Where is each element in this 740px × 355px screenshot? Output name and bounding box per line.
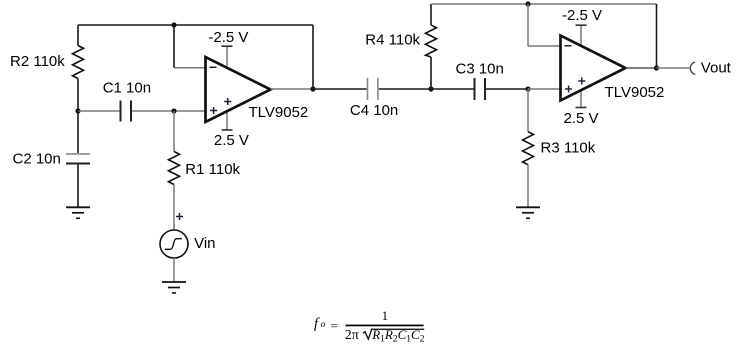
wire U2 output stub bbox=[626, 67, 657, 69]
svg-text:Vout: Vout bbox=[701, 59, 732, 76]
label plus input U2 bbox=[565, 86, 572, 93]
wire inverting input stub U1 bbox=[174, 67, 206, 69]
wire feedback vertical stage1 bbox=[312, 25, 314, 89]
wire R2 bottom lead bbox=[77, 79, 79, 112]
svg-text:TLV9052: TLV9052 bbox=[249, 104, 309, 121]
wire U2 feedback vertical bbox=[656, 4, 658, 68]
svg-text:o: o bbox=[321, 320, 326, 330]
wire Vin to ground bbox=[173, 258, 175, 282]
svg-text:-2.5 V: -2.5 V bbox=[562, 7, 602, 24]
capacitor C4 bbox=[368, 78, 378, 100]
svg-text:R1 110k: R1 110k bbox=[185, 161, 240, 178]
node junction C1 R1 plus-input bbox=[171, 108, 176, 113]
node junction R2 C1 C2 bbox=[75, 108, 80, 113]
ground below R3 bbox=[516, 207, 540, 218]
svg-text:TLV9052: TLV9052 bbox=[605, 84, 665, 101]
wire C2 top lead bbox=[77, 111, 79, 153]
capacitor C2 bbox=[66, 154, 90, 164]
svg-text:C3 10n: C3 10n bbox=[456, 60, 504, 77]
wire positive supply stub U2 bbox=[580, 90, 582, 107]
capacitor C3 bbox=[475, 78, 486, 100]
svg-text:R2 110k: R2 110k bbox=[10, 53, 65, 70]
wire C1 right lead to plus input bbox=[132, 110, 206, 112]
wire negative supply stub U2 bbox=[580, 25, 582, 46]
svg-text:R3 110k: R3 110k bbox=[541, 140, 596, 157]
terminal Vout bbox=[690, 62, 695, 75]
wire negative supply stub U1 bbox=[226, 46, 228, 68]
op-amp U1 TLV9052 bbox=[206, 57, 271, 122]
resistor R4 bbox=[426, 25, 437, 57]
svg-text:C2 10n: C2 10n bbox=[13, 151, 61, 168]
wire R1 to Vin source bbox=[173, 185, 175, 231]
wire top feedback rail stage2 bbox=[431, 3, 657, 5]
node output U2 feedback junction bbox=[654, 65, 659, 70]
power terminal 2.5V U2 bbox=[576, 107, 587, 109]
wire signal to C4 bbox=[313, 88, 367, 90]
wire inverting input drop bbox=[173, 25, 175, 68]
wire C4 to R4 node bbox=[379, 88, 431, 90]
node junction rail to U2 inverting drop bbox=[525, 1, 530, 6]
power terminal -2.5V U2 bbox=[576, 24, 587, 26]
wire U2 plus input stub bbox=[528, 88, 561, 90]
wire R1 top lead bbox=[173, 111, 175, 152]
svg-text:R4 110k: R4 110k bbox=[365, 32, 420, 49]
label plus supply U1 bbox=[224, 98, 231, 105]
node junction C3 R3 U2 plus bbox=[525, 86, 530, 91]
voltage source Vin bbox=[160, 230, 188, 258]
capacitor C1 bbox=[121, 101, 132, 122]
resistor R1 bbox=[169, 152, 180, 185]
wire R3 bottom lead bbox=[527, 165, 529, 207]
wire C3 right lead bbox=[486, 88, 528, 90]
svg-text:=: = bbox=[331, 318, 338, 333]
wire R4 bottom lead bbox=[430, 57, 432, 89]
wire output to Vout terminal bbox=[657, 67, 690, 69]
wire C1 left lead bbox=[78, 110, 120, 112]
wire top feedback rail stage1 bbox=[78, 24, 313, 26]
label minus input U2 bbox=[565, 45, 572, 47]
wire U2 inverting stub bbox=[528, 45, 561, 47]
svg-text:C4 10n: C4 10n bbox=[350, 102, 398, 119]
wire C3 left lead bbox=[431, 88, 474, 90]
svg-text:R1R2C1C2: R1R2C1C2 bbox=[371, 327, 425, 344]
wire R3 top lead bbox=[527, 89, 529, 132]
resistor R2 bbox=[73, 46, 84, 79]
svg-text:Vin: Vin bbox=[194, 235, 215, 252]
wire R2 top lead from rail bbox=[77, 25, 79, 46]
label plus polarity Vin bbox=[176, 213, 183, 220]
label plus supply U2 bbox=[578, 78, 585, 85]
label minus input U1 bbox=[210, 66, 217, 68]
wire R4 top lead bbox=[430, 4, 432, 25]
svg-text:f: f bbox=[314, 316, 320, 332]
wire U1 output stub bbox=[271, 88, 314, 90]
power terminal -2.5V U1 bbox=[222, 45, 233, 47]
svg-text:2.5 V: 2.5 V bbox=[564, 110, 599, 127]
svg-text:2π: 2π bbox=[345, 328, 359, 343]
node junction rail to inverting drop bbox=[171, 22, 176, 27]
svg-text:1: 1 bbox=[382, 309, 388, 323]
node output U1 feedback junction bbox=[310, 86, 315, 91]
resistor R3 bbox=[523, 132, 534, 165]
ground below Vin bbox=[162, 282, 186, 293]
wire positive supply stub U1 bbox=[226, 111, 228, 130]
label plus input U1 bbox=[210, 107, 217, 114]
svg-text:-2.5 V: -2.5 V bbox=[208, 29, 248, 46]
power terminal 2.5V U1 bbox=[222, 129, 233, 131]
op-amp U2 TLV9052 bbox=[561, 36, 626, 101]
ground below C2 bbox=[66, 207, 90, 218]
node junction C4 R4 C3 bbox=[428, 86, 433, 91]
wire C2 bottom lead bbox=[77, 164, 79, 208]
svg-text:C1 10n: C1 10n bbox=[103, 80, 151, 97]
svg-text:2.5 V: 2.5 V bbox=[214, 132, 249, 149]
formula fo equation bbox=[314, 309, 425, 344]
wire U2 inverting drop bbox=[527, 4, 529, 46]
